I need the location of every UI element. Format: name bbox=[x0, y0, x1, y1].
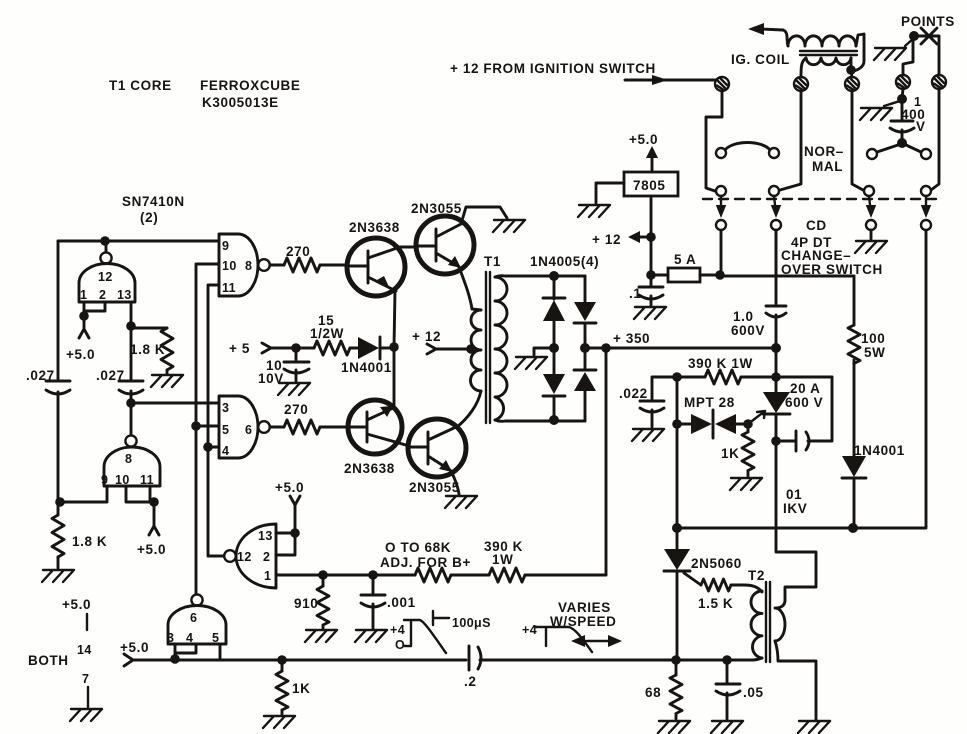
wire T2 right top bbox=[777, 600, 785, 608]
svg-text:1.0: 1.0 bbox=[733, 309, 754, 324]
diode 1N4001 right bbox=[842, 443, 905, 528]
pulse waveform 100us bbox=[390, 611, 491, 653]
wire junction to pin3 bbox=[131, 402, 217, 405]
resistor 270 lower bbox=[270, 402, 348, 434]
wire T2 right bottom to ground bbox=[775, 641, 816, 719]
switch contact upper p1 bbox=[716, 148, 726, 158]
wire gate6 output vertical bbox=[195, 426, 198, 594]
wire pin13 pin2 to +5 bbox=[276, 528, 300, 555]
svg-text:100: 100 bbox=[861, 331, 885, 346]
inductor ignition coil primary bbox=[783, 30, 856, 46]
wire SCR anode node bbox=[775, 348, 778, 377]
text BOTH pins 14 7 bbox=[28, 597, 92, 707]
svg-text:5W: 5W bbox=[864, 345, 885, 360]
node +12 tap arrow bbox=[592, 231, 656, 247]
switch wiper arrow p3 bbox=[866, 196, 876, 230]
svg-text:T2: T2 bbox=[748, 568, 765, 583]
wire Q1 emitter down bbox=[394, 291, 395, 347]
svg-text:.1: .1 bbox=[629, 286, 641, 301]
switch wiper arrow p4 bbox=[921, 196, 931, 230]
node pin4 junction bbox=[203, 442, 213, 452]
svg-text:1: 1 bbox=[80, 288, 87, 302]
svg-text:CHANGE–: CHANGE– bbox=[781, 248, 851, 263]
resistor 910 bbox=[294, 575, 329, 628]
transistor Q3 2N3638 lower bbox=[344, 400, 402, 476]
node pin13 junction bbox=[126, 321, 136, 331]
thyristor SCR1 20A 600V bbox=[763, 377, 823, 441]
svg-text:.2: .2 bbox=[464, 674, 476, 689]
ground 68 bbox=[658, 721, 690, 733]
wire bridge to ground bbox=[534, 348, 554, 355]
switch contact upper p3 bbox=[867, 149, 877, 159]
wire Q1 collector to Q2 base bbox=[400, 246, 417, 249]
capacitor .1 filter bbox=[629, 275, 663, 305]
node gate B input junction bbox=[126, 398, 136, 408]
fuse 5A bbox=[651, 252, 720, 282]
wire pin11 vertical bbox=[208, 285, 224, 556]
wire bottom rail left bbox=[175, 659, 466, 662]
svg-text:4: 4 bbox=[222, 444, 229, 458]
svg-text:1.8 K: 1.8 K bbox=[72, 534, 107, 549]
svg-text:VARIES: VARIES bbox=[558, 600, 611, 615]
diode 1N4001 middle bbox=[341, 337, 394, 375]
regulator U2 7805 bbox=[624, 172, 678, 196]
wire primary right end bbox=[853, 34, 864, 71]
switch contact upper p4 bbox=[921, 149, 931, 159]
ground 7805 bbox=[578, 205, 610, 217]
capacitor .022 bbox=[619, 377, 677, 427]
svg-text:5 A: 5 A bbox=[674, 252, 696, 267]
ground pole3 bbox=[855, 241, 887, 253]
resistor 1.5K gate bbox=[684, 573, 762, 611]
svg-text:2N5060: 2N5060 bbox=[691, 556, 742, 571]
svg-text:+ 12: + 12 bbox=[412, 329, 441, 344]
node +350 tap bbox=[601, 343, 611, 353]
op-amp gate U1d NAND pins 3,5,4 output 6 bbox=[219, 396, 270, 458]
svg-text:8: 8 bbox=[125, 452, 132, 466]
svg-text:11: 11 bbox=[140, 473, 154, 487]
wire Q2 collector to ground bbox=[461, 207, 507, 224]
svg-text:MAL: MAL bbox=[812, 159, 843, 174]
switch contact upper p2 bbox=[769, 148, 779, 158]
node SCR anode junction bbox=[771, 372, 781, 382]
node 68 junction bbox=[671, 655, 681, 665]
svg-text:13: 13 bbox=[258, 529, 273, 543]
op-amp gate U1f NAND pins 3,4,5 output 6 dome bbox=[167, 594, 226, 645]
capacitor 10 10V bbox=[258, 348, 309, 386]
ground .001 bbox=[355, 630, 387, 642]
ignition coil core bbox=[800, 51, 857, 55]
svg-text:5: 5 bbox=[212, 631, 219, 645]
transformer T2 left winding bbox=[748, 568, 765, 658]
transformer T2 right winding bbox=[775, 608, 785, 641]
node bridge plus bbox=[580, 343, 590, 353]
svg-text:1N4001: 1N4001 bbox=[341, 360, 392, 375]
svg-text:.027: .027 bbox=[26, 368, 55, 383]
op-amp gate U1e NAND output 12 facing left bbox=[224, 524, 276, 588]
svg-text:14: 14 bbox=[77, 643, 92, 657]
ground .022 bbox=[632, 429, 664, 441]
wire pin10 vertical bbox=[196, 264, 219, 426]
wire T2 left bottom to rail bbox=[676, 658, 762, 660]
node cap junction +350 bbox=[771, 343, 781, 353]
node pole1 junction bbox=[715, 270, 725, 280]
switch wiper arrow p1 bbox=[716, 196, 726, 230]
svg-text:+4: +4 bbox=[522, 623, 537, 637]
resistor 1K bottom bbox=[276, 660, 310, 714]
transformer T1 core bbox=[486, 272, 490, 423]
svg-text:K3005013E: K3005013E bbox=[202, 95, 279, 110]
svg-text:BOTH: BOTH bbox=[28, 653, 69, 668]
svg-text:13: 13 bbox=[117, 288, 132, 302]
svg-text:SN7410N: SN7410N bbox=[122, 194, 185, 209]
node junction +5 bbox=[291, 343, 301, 353]
svg-text:POINTS: POINTS bbox=[901, 14, 955, 29]
capacitor .05 bbox=[716, 660, 764, 719]
svg-text:9: 9 bbox=[222, 239, 229, 253]
node pole4 common bbox=[897, 138, 907, 148]
wire +12 rail to right bbox=[720, 275, 854, 278]
ground Q2 collector bbox=[493, 220, 525, 232]
svg-text:100μS: 100μS bbox=[452, 616, 491, 630]
svg-text:1N4001: 1N4001 bbox=[854, 443, 905, 458]
svg-text:270: 270 bbox=[284, 402, 308, 417]
wire secondary bottom to bridge bbox=[495, 420, 585, 421]
wire dashed switch gang bbox=[703, 198, 941, 200]
thyristor SCR2 2N5060 bbox=[664, 528, 742, 660]
svg-text:O TO 68K: O TO 68K bbox=[385, 540, 451, 555]
switch contact lower p2 bbox=[769, 186, 779, 196]
wire pin4 stub bbox=[208, 446, 219, 449]
svg-text:.022: .022 bbox=[619, 386, 648, 401]
wire gate arrow to SCR1 bbox=[748, 411, 765, 424]
svg-text:68: 68 bbox=[645, 685, 661, 700]
ground Q4 emitter bbox=[445, 496, 477, 508]
wire Q3 collector to Q4 base bbox=[399, 443, 409, 446]
svg-text:6: 6 bbox=[245, 423, 252, 437]
wire discharge rail bbox=[677, 230, 926, 528]
node left junction bbox=[55, 497, 65, 507]
svg-text:2: 2 bbox=[263, 550, 270, 564]
node junction diode emitter rail bbox=[389, 342, 399, 352]
resistor 100 5W bbox=[848, 276, 885, 456]
svg-text:1W: 1W bbox=[492, 552, 513, 567]
svg-text:2: 2 bbox=[99, 288, 106, 302]
svg-text:4: 4 bbox=[186, 631, 193, 645]
wire SCR cathode to T2 bbox=[776, 441, 816, 600]
text T1 core note bbox=[109, 78, 301, 110]
wire 7805 input bbox=[650, 196, 653, 275]
resistor 0 to 68K adjustable bbox=[380, 540, 489, 582]
wire pin5 to rail bbox=[219, 644, 222, 660]
svg-text:CD: CD bbox=[806, 218, 827, 233]
svg-text:11: 11 bbox=[222, 281, 236, 295]
svg-text:OVER SWITCH: OVER SWITCH bbox=[781, 262, 883, 277]
wire +350 rail bbox=[585, 331, 776, 348]
ground 1.8K lower bbox=[42, 570, 74, 582]
wire left vertical upper bbox=[57, 241, 60, 381]
svg-text:01: 01 bbox=[786, 487, 802, 502]
node pin5 junction bbox=[191, 421, 201, 431]
switch pole12 bridge arc bbox=[725, 143, 770, 151]
text SN7410N (2) bbox=[122, 194, 185, 225]
wire Q2 emitter to T1 primary bbox=[459, 267, 472, 309]
ground 910 bbox=[305, 630, 337, 642]
svg-text:+4: +4 bbox=[390, 623, 405, 637]
svg-text:2N3638: 2N3638 bbox=[344, 461, 395, 476]
svg-text:10: 10 bbox=[222, 259, 237, 273]
wire pin1 output rail bbox=[276, 574, 415, 575]
capacitor 1.0 600V bbox=[731, 230, 786, 348]
transformer T1 primary bbox=[471, 254, 501, 391]
svg-text:1K: 1K bbox=[721, 446, 739, 461]
wire secondary left end bbox=[801, 58, 806, 77]
svg-text:+ 12: + 12 bbox=[592, 232, 621, 247]
svg-text:+5.0: +5.0 bbox=[275, 480, 304, 495]
ground pin7 bbox=[70, 709, 102, 721]
svg-text:+5.0: +5.0 bbox=[629, 132, 658, 147]
svg-text:+ 5: + 5 bbox=[229, 341, 250, 356]
svg-text:1: 1 bbox=[264, 569, 271, 583]
svg-text:NOR–: NOR– bbox=[804, 144, 844, 159]
switch pole4 bridge V bbox=[877, 145, 921, 152]
node discharge left junction bbox=[672, 523, 682, 533]
ground .05 bbox=[711, 721, 743, 733]
svg-text:+5.0: +5.0 bbox=[62, 597, 91, 612]
svg-text:7: 7 bbox=[82, 672, 89, 686]
wire pins 3,4 to rail bbox=[175, 644, 196, 660]
capacitor .001 bbox=[361, 575, 416, 628]
node .001 junction bbox=[368, 570, 378, 580]
resistor 270 upper bbox=[270, 244, 347, 272]
inductor ignition coil secondary bbox=[806, 58, 851, 65]
svg-text:1K: 1K bbox=[292, 681, 310, 696]
diode bridge D3 bbox=[574, 276, 596, 348]
resistor 15 1/2W bbox=[296, 313, 358, 355]
svg-text:1.5 K: 1.5 K bbox=[698, 596, 733, 611]
svg-text:6: 6 bbox=[190, 611, 197, 625]
node MPT left junction bbox=[672, 419, 682, 429]
resistor 68 bbox=[645, 660, 682, 719]
ground cap 10 bbox=[278, 383, 310, 395]
node bridge top bbox=[549, 271, 559, 281]
ground condenser bbox=[860, 101, 900, 120]
svg-text:10: 10 bbox=[115, 473, 130, 487]
wire gate8 pins 10,11 to +5 bbox=[126, 486, 166, 557]
ground bridge bbox=[515, 357, 547, 369]
ground 1K gate bbox=[730, 478, 762, 490]
node 390K left junction bbox=[672, 372, 682, 382]
resistor 390K 1W right bbox=[677, 356, 776, 384]
node condenser top junction bbox=[897, 89, 907, 104]
svg-text:12: 12 bbox=[237, 550, 252, 564]
terminal coil primary low bbox=[794, 77, 808, 91]
resistor 1.8K upper bbox=[130, 328, 173, 374]
svg-text:.05: .05 bbox=[743, 685, 764, 700]
svg-text:1/2W: 1/2W bbox=[310, 326, 344, 341]
terminal coil secondary bbox=[845, 77, 859, 91]
svg-text:IG. COIL: IG. COIL bbox=[731, 52, 790, 67]
svg-text:910: 910 bbox=[294, 596, 318, 611]
text NORMAL bbox=[804, 144, 844, 174]
resistor 1.8K lower bbox=[52, 502, 107, 568]
svg-text:20 A: 20 A bbox=[790, 381, 820, 396]
node diac right junction bbox=[743, 419, 753, 429]
svg-text:600 V: 600 V bbox=[785, 395, 823, 410]
switch contact lower p4 bbox=[921, 186, 931, 196]
transformer T2 core bbox=[766, 582, 770, 662]
ignition coil arrow out bbox=[748, 23, 783, 35]
svg-text:+5.0: +5.0 bbox=[137, 542, 166, 557]
svg-text:3: 3 bbox=[222, 401, 229, 415]
pin 1 lead to +5.0 bbox=[66, 302, 105, 362]
text CD 4PDT changeover switch bbox=[781, 218, 883, 277]
node +12 from ignition switch bbox=[450, 61, 715, 85]
node fuse left junction bbox=[646, 270, 656, 280]
diode bridge D4 bbox=[574, 348, 596, 421]
ground 1.8K upper bbox=[151, 375, 183, 387]
transistor Q1 2N3638 upper bbox=[347, 220, 405, 296]
svg-text:V: V bbox=[916, 119, 926, 134]
ground .1 filter bbox=[634, 307, 666, 319]
pulse waveform varies with speed bbox=[522, 600, 622, 652]
wire pin13 down bbox=[130, 302, 133, 326]
ground T2 bbox=[798, 721, 830, 733]
wire 7805 ground lead bbox=[596, 183, 624, 203]
wire coil primary terminal down bbox=[780, 91, 801, 190]
svg-text:270: 270 bbox=[286, 244, 310, 259]
wire MPT column bbox=[676, 377, 679, 528]
node 1K junction bbox=[277, 655, 287, 665]
svg-text:(2): (2) bbox=[140, 210, 158, 225]
op-amp gate U1a pins 1,2,13,12 bbox=[79, 241, 135, 302]
svg-text:FERROXCUBE: FERROXCUBE bbox=[200, 78, 301, 93]
diode bridge D2 bbox=[543, 348, 565, 420]
wire pin5 stub bbox=[196, 425, 219, 428]
op-amp gate U1c NAND pins 9,10,11 output 8 bbox=[219, 234, 270, 296]
svg-text:MPT 28: MPT 28 bbox=[684, 395, 735, 410]
svg-text:5: 5 bbox=[222, 423, 229, 437]
wire ignition switch feed bbox=[715, 80, 717, 81]
svg-text:7805: 7805 bbox=[633, 178, 665, 193]
resistor 390K 1W left bbox=[484, 539, 606, 582]
capacitor .01 1KV snubber bbox=[776, 377, 832, 516]
diode bridge D1 bbox=[543, 276, 565, 348]
transistor Q4 2N3055 lower bbox=[408, 419, 466, 495]
terminal points low bbox=[932, 75, 946, 89]
capacitor .027 left bbox=[26, 368, 70, 503]
svg-text:2N3055: 2N3055 bbox=[409, 480, 460, 495]
node 910 junction bbox=[318, 570, 328, 580]
node +5.0 above gate12 bbox=[275, 480, 304, 533]
node +5.0 bottom input bbox=[120, 640, 175, 666]
svg-text:12: 12 bbox=[98, 270, 113, 284]
node 1N4001 bottom junction bbox=[848, 523, 858, 533]
node SCR cathode junction bbox=[771, 436, 781, 446]
svg-text:8: 8 bbox=[245, 259, 252, 273]
terminal condenser bbox=[896, 75, 910, 89]
wire pole1 drop bbox=[720, 230, 723, 275]
svg-text:.001: .001 bbox=[387, 595, 416, 610]
op-amp gate U1b pins 9,10,11 output 8 (gate 8) bbox=[101, 403, 160, 487]
wire Q4 emitter to ground bbox=[451, 471, 459, 494]
ground points top bbox=[874, 38, 914, 60]
wire terminal to pole1 bbox=[706, 91, 722, 191]
node +5.0 output arrow bbox=[629, 132, 658, 172]
svg-text:2N3055: 2N3055 bbox=[411, 201, 462, 216]
capacitor .027 second bbox=[96, 326, 143, 403]
node gate6 pin3 junction bbox=[170, 654, 180, 664]
wire pole2 down to cap bbox=[775, 230, 778, 276]
wire pole3 to ground bbox=[870, 230, 873, 239]
svg-text:IKV: IKV bbox=[783, 501, 807, 516]
svg-text:T1 CORE: T1 CORE bbox=[109, 78, 172, 93]
wire secondary top to bridge bbox=[495, 276, 585, 277]
svg-text:2N3638: 2N3638 bbox=[349, 220, 400, 235]
node .05 junction bbox=[722, 655, 732, 665]
ground 1K bottom bbox=[263, 716, 295, 728]
capacitor .2 series bbox=[464, 646, 676, 689]
svg-text:ADJ. FOR B+: ADJ. FOR B+ bbox=[380, 555, 471, 570]
svg-text:.027: .027 bbox=[96, 368, 125, 383]
resistor 1K gate bbox=[721, 424, 754, 476]
switch wiper arrow p2 bbox=[771, 196, 781, 230]
svg-text:+5.0: +5.0 bbox=[66, 347, 95, 362]
wire top rail to NAND pin9 bbox=[58, 240, 217, 243]
node bridge minus bbox=[549, 343, 559, 353]
svg-text:T1: T1 bbox=[484, 254, 501, 269]
node +12 center tap bbox=[412, 329, 476, 354]
svg-text:+ 350: + 350 bbox=[613, 331, 650, 346]
svg-text:+ 12 FROM IGNITION SWITCH: + 12 FROM IGNITION SWITCH bbox=[450, 61, 656, 76]
switch contact lower p1 bbox=[716, 186, 726, 196]
wire emitter rail lower bbox=[393, 348, 396, 408]
capacitor .1 400V condenser bbox=[890, 95, 926, 141]
points breaker X bbox=[909, 28, 939, 190]
wire T1 primary bottom to Q4 collector bbox=[457, 391, 481, 427]
wire points to condenser terminal bbox=[903, 40, 913, 75]
node coil common junction bbox=[846, 58, 856, 77]
node bridge bottom bbox=[549, 415, 559, 425]
diac MPT 28 bbox=[677, 395, 748, 438]
svg-text:3: 3 bbox=[167, 631, 174, 645]
svg-text:600V: 600V bbox=[731, 323, 765, 338]
node +5 input bbox=[229, 341, 296, 356]
wire 390K up to +350 bbox=[605, 348, 608, 575]
wire gate8 pin9 to left node bbox=[60, 486, 107, 502]
svg-text:390 K 1W: 390 K 1W bbox=[688, 356, 753, 371]
svg-text:1.8 K: 1.8 K bbox=[130, 342, 165, 357]
terminal ignition feed bbox=[715, 77, 729, 91]
node junction top rail bbox=[100, 236, 110, 246]
transistor Q2 2N3055 upper bbox=[411, 201, 474, 274]
transformer T1 secondary bbox=[495, 277, 507, 420]
wire coil secondary terminal down bbox=[852, 91, 863, 190]
switch contact lower p3 bbox=[864, 186, 874, 196]
svg-text:1N4005(4): 1N4005(4) bbox=[530, 254, 599, 269]
